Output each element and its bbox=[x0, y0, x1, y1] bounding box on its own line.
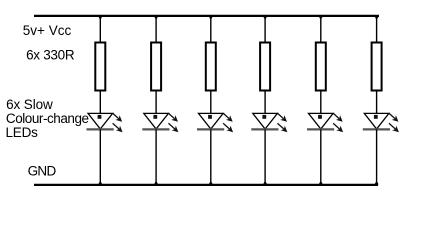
svg-text:Colour-change: Colour-change bbox=[6, 111, 89, 126]
svg-text:GND: GND bbox=[28, 164, 57, 179]
svg-text:6x Slow: 6x Slow bbox=[6, 97, 53, 112]
svg-text:LEDs: LEDs bbox=[6, 125, 39, 140]
svg-text:6x 330R: 6x 330R bbox=[26, 47, 75, 62]
svg-text:5v+ Vcc: 5v+ Vcc bbox=[23, 23, 72, 38]
